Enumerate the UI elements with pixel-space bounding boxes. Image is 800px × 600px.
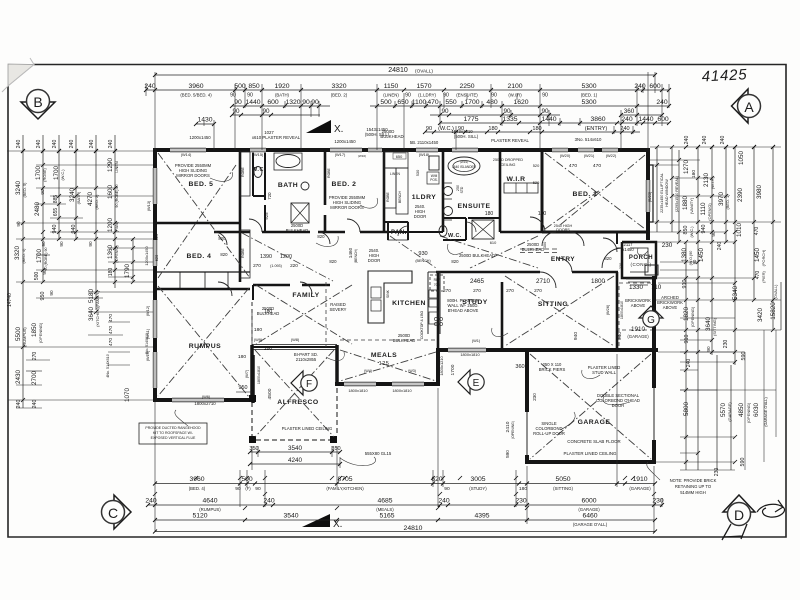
svg-text:2250: 2250 bbox=[459, 83, 474, 90]
svg-text:230: 230 bbox=[714, 468, 720, 477]
svg-text:620: 620 bbox=[154, 233, 159, 240]
svg-text:270: 270 bbox=[32, 352, 38, 361]
svg-text:705.: 705. bbox=[434, 283, 441, 287]
wall: interior bed5/bed4 divider bbox=[155, 222, 240, 225]
symbol A (top right) bbox=[732, 89, 761, 123]
svg-text:555X80 GL15: 555X80 GL15 bbox=[365, 451, 392, 456]
door arcs bbox=[218, 282, 232, 296]
svg-text:LINEN: LINEN bbox=[390, 172, 401, 176]
svg-text:820: 820 bbox=[604, 256, 612, 261]
svg-text:90: 90 bbox=[444, 486, 450, 492]
svg-text:470: 470 bbox=[108, 338, 114, 346]
svg-text:2390: 2390 bbox=[737, 188, 744, 203]
fixture: linen near ildry bbox=[384, 152, 408, 168]
svg-text:180: 180 bbox=[264, 346, 273, 352]
wall: alfresco right / meals left bbox=[335, 345, 339, 386]
svg-text:W.C.: W.C. bbox=[252, 167, 266, 173]
svg-text:(ROBE): (ROBE) bbox=[42, 167, 47, 181]
porch step rect bbox=[645, 265, 658, 275]
svg-text:2235x1450 ELLIPTICAL: 2235x1450 ELLIPTICAL bbox=[660, 173, 664, 213]
brickwork-above dashed area right of sitting bbox=[619, 283, 652, 348]
svg-text:240: 240 bbox=[720, 136, 726, 145]
bulkhead dash lines bbox=[252, 282, 326, 347]
svg-text:550: 550 bbox=[445, 99, 457, 106]
svg-text:1010: 1010 bbox=[736, 223, 743, 238]
svg-text:1460: 1460 bbox=[348, 247, 353, 258]
svg-text:2430: 2430 bbox=[15, 370, 22, 385]
svg-text:90: 90 bbox=[426, 126, 432, 132]
svg-text:1850: 1850 bbox=[31, 323, 38, 338]
svg-text:1700: 1700 bbox=[36, 249, 43, 264]
svg-text:PROVIDE DUCTED RANGEHOOD: PROVIDE DUCTED RANGEHOOD bbox=[145, 426, 201, 430]
svg-text:BED. 2: BED. 2 bbox=[332, 181, 357, 188]
svg-text:3970: 3970 bbox=[718, 192, 725, 207]
fixture: bed2 robe/bench bbox=[384, 168, 396, 208]
svg-text:1335: 1335 bbox=[502, 116, 517, 123]
svg-text:240: 240 bbox=[620, 126, 629, 132]
fixture: bed4 robe bbox=[240, 230, 250, 278]
svg-text:1640 ISLANDER: 1640 ISLANDER bbox=[452, 165, 477, 169]
svg-text:520: 520 bbox=[533, 180, 540, 185]
svg-text:STD: STD bbox=[460, 186, 464, 193]
wall: top exterior bbox=[153, 148, 650, 152]
svg-text:(GARAGE): (GARAGE) bbox=[627, 334, 649, 339]
svg-text:240: 240 bbox=[89, 140, 95, 149]
svg-text:(OPENING): (OPENING) bbox=[38, 322, 43, 343]
svg-text:3540: 3540 bbox=[288, 445, 303, 452]
svg-text:940: 940 bbox=[573, 332, 579, 340]
diag bed5-bed4 bbox=[158, 153, 250, 278]
svg-text:MEALS: MEALS bbox=[371, 352, 397, 359]
svg-text:650: 650 bbox=[397, 99, 409, 106]
svg-text:1110: 1110 bbox=[700, 202, 707, 216]
svg-text:5050: 5050 bbox=[555, 476, 570, 483]
svg-text:(STUDY): (STUDY) bbox=[469, 486, 487, 491]
svg-text:470: 470 bbox=[108, 326, 114, 334]
svg-text:DOOR: DOOR bbox=[414, 214, 427, 219]
svg-text:(GARAGE O'ALL): (GARAGE O'ALL) bbox=[573, 522, 608, 527]
section marker X top bbox=[306, 120, 331, 133]
svg-text:REF: REF bbox=[434, 278, 441, 282]
svg-text:885: 885 bbox=[53, 195, 59, 204]
svg-text:600: 600 bbox=[267, 99, 279, 106]
hall diagonal dash bbox=[242, 233, 436, 281]
svg-text:240: 240 bbox=[438, 498, 450, 505]
fixture: ref pos dashed bbox=[430, 275, 444, 291]
svg-text:1200x1450: 1200x1450 bbox=[144, 246, 149, 266]
svg-text:(GARAGE O'ALL): (GARAGE O'ALL) bbox=[764, 397, 768, 426]
svg-text:180: 180 bbox=[488, 126, 497, 132]
svg-text:(W3): (W3) bbox=[408, 369, 416, 373]
svg-text:270: 270 bbox=[473, 288, 481, 293]
svg-text:X.: X. bbox=[333, 519, 342, 530]
svg-text:15820: 15820 bbox=[770, 302, 777, 320]
svg-text:240: 240 bbox=[32, 400, 38, 409]
svg-text:1380: 1380 bbox=[681, 248, 688, 263]
svg-text:2130: 2130 bbox=[703, 173, 710, 188]
svg-text:655: 655 bbox=[53, 208, 59, 217]
svg-text:ABOVE: ABOVE bbox=[663, 305, 678, 310]
svg-text:(BED. 2): (BED. 2) bbox=[94, 194, 99, 210]
svg-text:1570: 1570 bbox=[416, 83, 431, 90]
svg-text:5180: 5180 bbox=[88, 289, 95, 304]
svg-text:(RUMPUS): (RUMPUS) bbox=[22, 327, 27, 347]
svg-text:(W23): (W23) bbox=[647, 191, 652, 202]
wall: bed1 bottom bbox=[542, 231, 650, 234]
wall: alfresco left bbox=[250, 345, 254, 398]
svg-text:4270: 4270 bbox=[87, 192, 94, 207]
svg-text:1800x1810: 1800x1810 bbox=[392, 388, 412, 393]
svg-text:LINEN: LINEN bbox=[114, 161, 119, 173]
wall: ensuite/wir divider bbox=[499, 150, 502, 232]
svg-text:5570: 5570 bbox=[720, 403, 727, 418]
svg-text:24810: 24810 bbox=[404, 525, 423, 532]
svg-text:240: 240 bbox=[702, 136, 708, 145]
svg-text:B: B bbox=[33, 94, 42, 110]
svg-text:1450: 1450 bbox=[698, 248, 705, 263]
svg-text:ENTRY: ENTRY bbox=[551, 256, 575, 263]
svg-text:(W15): (W15) bbox=[253, 152, 264, 157]
svg-text:1450: 1450 bbox=[754, 248, 761, 263]
entry bulkhead dashes bbox=[520, 249, 560, 253]
svg-text:270: 270 bbox=[506, 288, 514, 293]
svg-text:90: 90 bbox=[491, 93, 497, 99]
svg-text:230: 230 bbox=[515, 498, 527, 505]
svg-text:90: 90 bbox=[16, 221, 21, 227]
svg-text:(W12): (W12) bbox=[145, 305, 150, 316]
svg-text:500: 500 bbox=[234, 83, 246, 90]
svg-text:MIRROR DOORS: MIRROR DOORS bbox=[176, 173, 210, 178]
svg-text:5B. 2110x1450: 5B. 2110x1450 bbox=[410, 140, 439, 145]
svg-text:(BED. 5/BED. 4): (BED. 5/BED. 4) bbox=[180, 93, 212, 98]
svg-text:500: 500 bbox=[380, 99, 392, 106]
svg-text:NOTE: PROVIDE BRICK: NOTE: PROVIDE BRICK bbox=[670, 478, 717, 483]
svg-text:240: 240 bbox=[684, 136, 690, 145]
svg-text:D: D bbox=[734, 507, 744, 523]
svg-text:1700: 1700 bbox=[464, 99, 479, 106]
wall: bath right / bed2 left bbox=[324, 150, 327, 232]
svg-text:(BED. 4): (BED. 4) bbox=[21, 248, 26, 264]
wall: sitting right bbox=[616, 272, 619, 350]
wall: garage/porch right exterior bbox=[652, 276, 656, 464]
svg-text:G: G bbox=[647, 315, 655, 326]
diag sitting bbox=[505, 276, 614, 346]
svg-text:2500D DROPPED: 2500D DROPPED bbox=[493, 158, 523, 162]
svg-text:PLASTER LINED CEILING: PLASTER LINED CEILING bbox=[282, 426, 333, 431]
svg-text:ROBE: ROBE bbox=[386, 191, 390, 201]
svg-text:HEAD WINDOW: HEAD WINDOW bbox=[665, 179, 669, 207]
wall: bed1 window bay right bbox=[648, 165, 653, 222]
svg-text:(BATH): (BATH) bbox=[76, 191, 81, 204]
wall: rumpus right lower bbox=[251, 355, 255, 403]
svg-text:BULKHEAD: BULKHEAD bbox=[393, 338, 416, 343]
svg-text:ROBE: ROBE bbox=[327, 167, 331, 177]
svg-text:(BED. 5): (BED. 5) bbox=[22, 182, 27, 198]
svg-text:5340: 5340 bbox=[732, 286, 739, 301]
wall: entry right / porch left bbox=[616, 232, 618, 244]
svg-text:(GARAGE): (GARAGE) bbox=[578, 507, 600, 512]
svg-text:8705: 8705 bbox=[337, 476, 352, 483]
svg-text:1600: 1600 bbox=[107, 185, 114, 200]
symbol C (bottom left) bbox=[102, 495, 132, 529]
svg-text:90: 90 bbox=[262, 108, 270, 115]
svg-text:930: 930 bbox=[418, 251, 427, 257]
symbol B (top left) bbox=[21, 90, 55, 120]
wall: bed5 right vertical bbox=[239, 150, 242, 282]
fixture: wc2 toilet bbox=[439, 226, 447, 237]
svg-text:1100: 1100 bbox=[412, 99, 427, 106]
svg-text:A: A bbox=[744, 99, 754, 115]
fixture: pantry shelves bbox=[388, 222, 408, 240]
svg-text:(OPEN'G): (OPEN'G) bbox=[707, 203, 712, 221]
svg-text:530: 530 bbox=[415, 169, 420, 176]
svg-text:BATH: BATH bbox=[278, 182, 298, 189]
svg-text:90: 90 bbox=[59, 241, 64, 247]
svg-text:(W7): (W7) bbox=[244, 369, 249, 378]
svg-text:350: 350 bbox=[249, 446, 258, 452]
svg-text:6000: 6000 bbox=[581, 498, 596, 505]
svg-text:RETAINING UP TO: RETAINING UP TO bbox=[675, 484, 712, 489]
svg-text:470: 470 bbox=[754, 227, 760, 236]
svg-text:230: 230 bbox=[723, 340, 729, 349]
svg-text:POS.: POS. bbox=[430, 178, 438, 182]
wall: meals bay right bbox=[436, 348, 440, 386]
garage sectional door opening (right wall) bbox=[651, 388, 656, 440]
svg-text:1440: 1440 bbox=[245, 99, 260, 106]
svg-text:5300: 5300 bbox=[581, 83, 596, 90]
svg-text:1800x1210: 1800x1210 bbox=[439, 356, 444, 376]
svg-text:2465: 2465 bbox=[470, 278, 485, 285]
svg-text:240: 240 bbox=[634, 83, 646, 90]
svg-text:ALFRESCO: ALFRESCO bbox=[277, 399, 318, 406]
svg-text:90: 90 bbox=[503, 108, 511, 115]
wall: wc right vertical bbox=[253, 150, 265, 200]
svg-text:(FAMILY,KITCHEN): (FAMILY,KITCHEN) bbox=[326, 486, 364, 491]
symbol F (alfresco) bbox=[291, 371, 317, 395]
wall: bed1 left / wir right bbox=[541, 150, 544, 232]
fixture: bath shower tiled base bbox=[291, 203, 309, 223]
svg-text:470: 470 bbox=[427, 99, 439, 106]
svg-text:1790: 1790 bbox=[124, 264, 131, 279]
svg-text:F: F bbox=[306, 379, 312, 390]
svg-text:3640: 3640 bbox=[705, 317, 712, 332]
svg-text:PLASTER REVEAL: PLASTER REVEAL bbox=[491, 138, 529, 143]
svg-text:GARAGE: GARAGE bbox=[578, 419, 611, 426]
fixture: kitchen right bench + sink bbox=[428, 272, 440, 334]
fixture: kitchen island L bench bbox=[368, 271, 412, 323]
svg-text:3No. 514x610: 3No. 514x610 bbox=[575, 137, 602, 142]
svg-text:2110x2855: 2110x2855 bbox=[296, 357, 317, 362]
svg-text:6030: 6030 bbox=[753, 403, 760, 418]
bed1 entry door arc bbox=[603, 238, 617, 252]
diag bed1 bbox=[545, 153, 645, 229]
svg-text:BED. 5: BED. 5 bbox=[189, 181, 214, 188]
svg-text:(W14): (W14) bbox=[181, 152, 192, 157]
svg-text:41425: 41425 bbox=[701, 66, 748, 85]
svg-text:90: 90 bbox=[311, 99, 319, 106]
wall: corridor under ensuite/wir bbox=[500, 231, 542, 234]
svg-text:360: 360 bbox=[624, 108, 635, 115]
svg-text:(W16): (W16) bbox=[358, 154, 366, 158]
svg-text:1200x1450: 1200x1450 bbox=[334, 139, 356, 144]
svg-text:1620: 1620 bbox=[513, 99, 528, 106]
svg-text:360: 360 bbox=[515, 364, 524, 370]
svg-text:4850: 4850 bbox=[738, 403, 745, 418]
svg-text:1800x2710: 1800x2710 bbox=[194, 401, 216, 406]
svg-text:1050: 1050 bbox=[738, 151, 745, 166]
svg-text:C: C bbox=[108, 505, 118, 521]
svg-text:1440: 1440 bbox=[638, 116, 653, 123]
wall: rumpus bottom exterior bbox=[153, 398, 254, 402]
svg-text:910: 910 bbox=[684, 335, 690, 344]
svg-text:(PORCH): (PORCH) bbox=[761, 249, 766, 266]
svg-text:90: 90 bbox=[41, 241, 46, 247]
svg-text:720: 720 bbox=[267, 192, 272, 200]
svg-text:4500: 4500 bbox=[267, 388, 273, 399]
svg-text:1880: 1880 bbox=[682, 196, 689, 211]
svg-text:180: 180 bbox=[691, 170, 697, 178]
svg-text:COOKTOP & L'BO: COOKTOP & L'BO bbox=[420, 310, 424, 339]
svg-text:180: 180 bbox=[519, 486, 527, 492]
svg-text:(W.C.): (W.C.) bbox=[689, 226, 694, 238]
svg-text:SEVERY: SEVERY bbox=[330, 307, 347, 312]
diag family bbox=[256, 285, 352, 344]
fixture: bath vanity V bbox=[301, 182, 309, 190]
svg-text:ABOVE: ABOVE bbox=[631, 303, 646, 308]
svg-text:520: 520 bbox=[533, 163, 540, 168]
svg-text:BRICK PIERS: BRICK PIERS bbox=[539, 367, 566, 372]
svg-text:1800x1810: 1800x1810 bbox=[348, 388, 368, 393]
svg-text:24810: 24810 bbox=[388, 67, 408, 74]
svg-text:4685: 4685 bbox=[377, 498, 392, 505]
svg-text:3240: 3240 bbox=[15, 181, 22, 196]
svg-text:1775: 1775 bbox=[463, 116, 478, 123]
garage roll-up door opening (left wall) bbox=[524, 412, 529, 455]
svg-text:CONCRETE SLAB FLOOR: CONCRETE SLAB FLOOR bbox=[567, 439, 620, 444]
svg-text:910: 910 bbox=[682, 280, 688, 289]
svg-text:1360: 1360 bbox=[107, 245, 114, 260]
svg-text:1150: 1150 bbox=[384, 83, 399, 90]
svg-text:1LDRY: 1LDRY bbox=[412, 194, 437, 201]
svg-text:180: 180 bbox=[538, 211, 547, 217]
svg-text:1920: 1920 bbox=[274, 83, 289, 90]
svg-text:4No. 514X610: 4No. 514X610 bbox=[145, 333, 149, 355]
svg-text:(PIER): (PIER) bbox=[761, 270, 766, 282]
diag rumpus bbox=[158, 286, 249, 397]
svg-text:(GARAGE): (GARAGE) bbox=[629, 486, 651, 491]
wall: ildry right / ensuite left bbox=[442, 150, 445, 232]
svg-text:(BED. 2): (BED. 2) bbox=[331, 93, 348, 98]
svg-text:ROLL-UP DOOR: ROLL-UP DOOR bbox=[533, 431, 565, 436]
svg-text:470: 470 bbox=[569, 163, 577, 169]
svg-text:(MEALS): (MEALS) bbox=[376, 507, 394, 512]
svg-text:1800x1810: 1800x1810 bbox=[257, 366, 261, 384]
svg-text:470: 470 bbox=[593, 163, 601, 169]
svg-text:STUD WALL: STUD WALL bbox=[592, 370, 616, 375]
svg-text:90: 90 bbox=[88, 241, 93, 247]
svg-text:SINK: SINK bbox=[386, 289, 390, 298]
svg-text:90: 90 bbox=[706, 346, 711, 352]
svg-text:PAN.: PAN. bbox=[391, 230, 407, 236]
svg-text:(W26): (W26) bbox=[605, 304, 610, 315]
svg-text:1910: 1910 bbox=[631, 326, 646, 333]
wall: entry-sitting corridor bottom bbox=[436, 271, 618, 274]
svg-text:500: 500 bbox=[34, 272, 40, 281]
svg-text:(W13): (W13) bbox=[146, 200, 151, 211]
svg-text:220: 220 bbox=[290, 263, 298, 268]
svg-text:(OVALL): (OVALL) bbox=[415, 69, 433, 74]
svg-text:(1.LDRY): (1.LDRY) bbox=[418, 93, 436, 98]
svg-text:590: 590 bbox=[505, 450, 510, 458]
porch steps bbox=[626, 279, 652, 285]
wall: bed1 right exterior bbox=[646, 152, 650, 240]
svg-text:925: 925 bbox=[264, 212, 269, 220]
fixture: ensuite shower tiled base bbox=[472, 220, 494, 239]
svg-text:BULKHEAD: BULKHEAD bbox=[257, 311, 280, 316]
svg-text:(W19): (W19) bbox=[460, 160, 468, 164]
svg-text:(BENCH): (BENCH) bbox=[354, 249, 358, 263]
wall: ildry bottom bbox=[384, 222, 443, 232]
svg-text:ROBE: ROBE bbox=[241, 166, 245, 176]
diag garage bbox=[530, 354, 651, 459]
svg-text:480: 480 bbox=[486, 99, 498, 106]
svg-text:650: 650 bbox=[396, 154, 403, 159]
svg-text:BENCH: BENCH bbox=[398, 191, 402, 203]
svg-text:600: 600 bbox=[657, 116, 669, 123]
svg-text:90: 90 bbox=[49, 290, 54, 296]
svg-text:230: 230 bbox=[532, 393, 537, 401]
diag alfresco bbox=[255, 350, 334, 437]
svg-text:90: 90 bbox=[541, 108, 549, 115]
wall: bed4/rumpus divider bbox=[155, 288, 250, 291]
svg-text:(BED. 1): (BED. 1) bbox=[581, 93, 598, 98]
svg-text:5800: 5800 bbox=[683, 402, 690, 417]
svg-text:240: 240 bbox=[108, 140, 114, 149]
svg-text:90: 90 bbox=[542, 93, 548, 99]
svg-text:3320: 3320 bbox=[14, 246, 21, 261]
svg-text:(W18): (W18) bbox=[419, 152, 430, 157]
svg-text:240: 240 bbox=[69, 140, 75, 149]
svg-text:W.C.: W.C. bbox=[448, 233, 462, 239]
svg-text:(W21): (W21) bbox=[584, 153, 595, 158]
wall: meals bottom exterior bbox=[335, 382, 440, 386]
fixture: wir shelves bbox=[504, 183, 538, 193]
svg-text:180: 180 bbox=[254, 327, 262, 333]
wall: kitchen/study divider vertical bbox=[437, 272, 440, 350]
svg-text:90: 90 bbox=[40, 189, 45, 195]
svg-text:240: 240 bbox=[621, 116, 633, 123]
svg-text:270: 270 bbox=[443, 288, 451, 293]
svg-text:4240: 4240 bbox=[288, 457, 303, 464]
svg-text:1270: 1270 bbox=[683, 160, 690, 175]
svg-text:940: 940 bbox=[701, 225, 707, 234]
svg-text:3320: 3320 bbox=[331, 83, 346, 90]
diag meals bbox=[340, 350, 436, 381]
svg-text:5500: 5500 bbox=[15, 327, 22, 342]
svg-text:(500H. SILL): (500H. SILL) bbox=[454, 134, 479, 139]
svg-text:EXPOSED VERTICAL FLUE: EXPOSED VERTICAL FLUE bbox=[151, 436, 196, 440]
svg-text:(2295x1510 REVEAL): (2295x1510 REVEAL) bbox=[675, 176, 679, 212]
svg-text:3860: 3860 bbox=[590, 116, 605, 123]
svg-text:(KITCHEN): (KITCHEN) bbox=[95, 306, 100, 326]
svg-text:850: 850 bbox=[248, 83, 260, 90]
svg-text:90: 90 bbox=[441, 108, 449, 115]
symbol G (right of sitting) bbox=[639, 306, 663, 327]
svg-text:590: 590 bbox=[741, 352, 747, 361]
svg-text:(BED. 4): (BED. 4) bbox=[189, 486, 206, 491]
entry front door arc bbox=[602, 248, 622, 268]
bed4 robe band along bottom bbox=[155, 271, 250, 273]
